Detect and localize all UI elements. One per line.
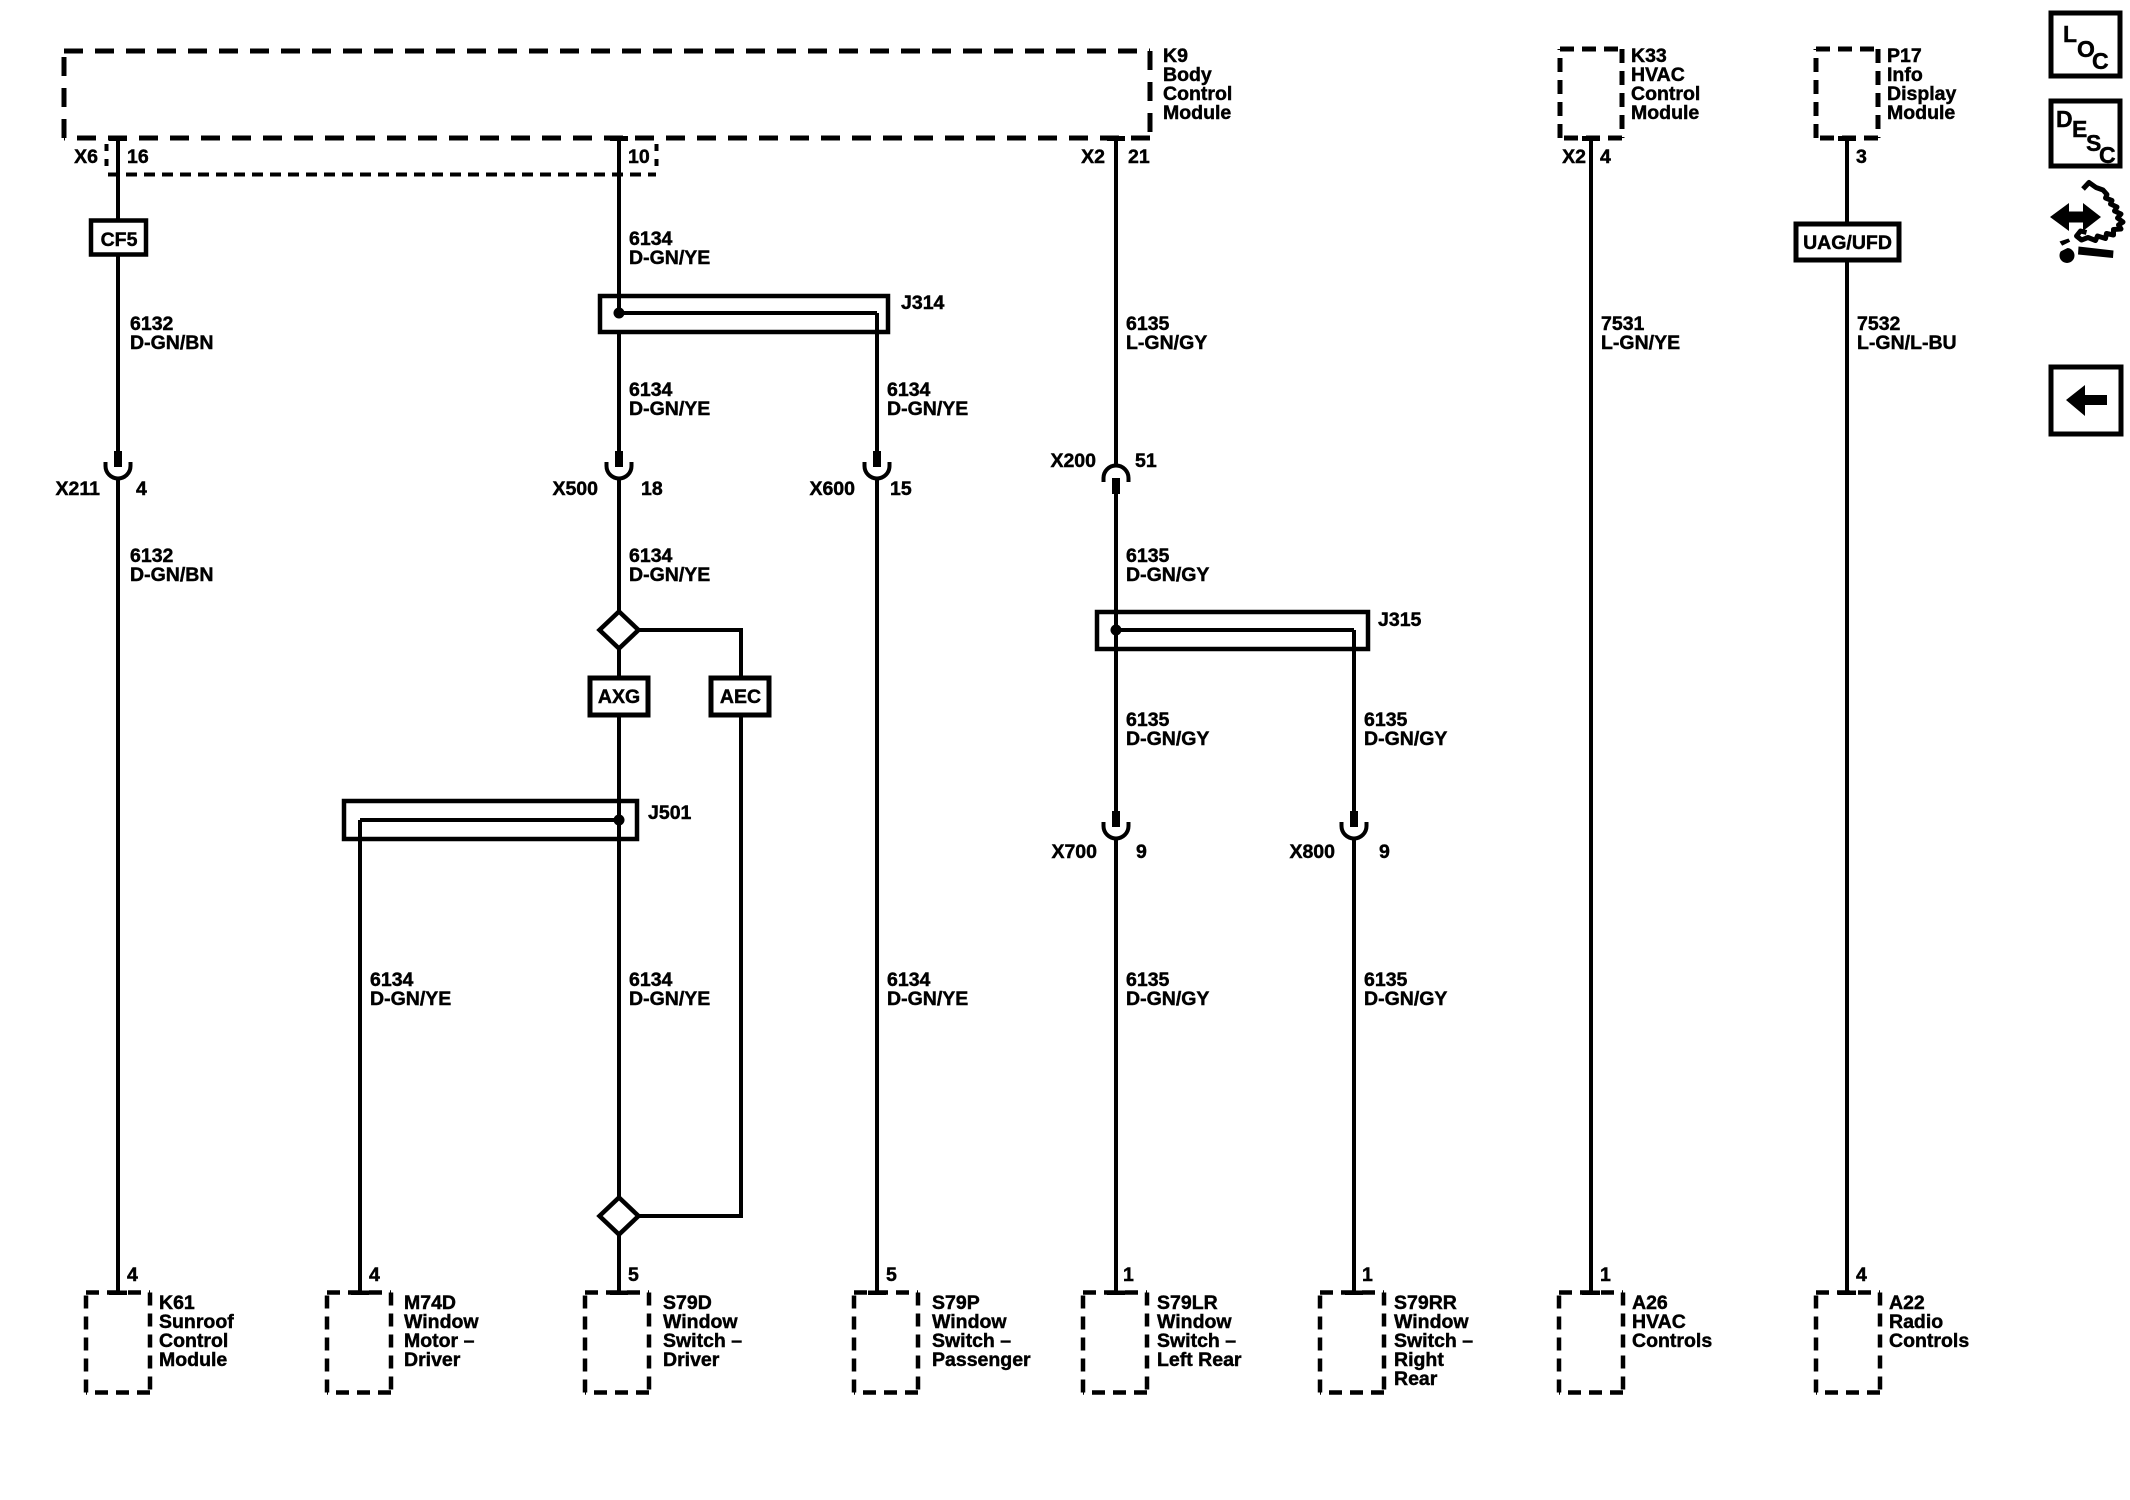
svg-text:X6: X6 — [74, 146, 98, 168]
svg-text:18: 18 — [641, 478, 663, 500]
wire 6135 D-GN/GY from X200 to splice J315 — [1114, 494, 1118, 630]
svg-text:X200: X200 — [1050, 450, 1096, 472]
svg-text:4: 4 — [136, 478, 147, 500]
wire 6132 D-GN/BN from X211 to K61 — [116, 479, 120, 1293]
wire label 6134 D-GN/YE to S79P — [887, 969, 968, 1010]
junction dash at K9 pin 10 — [610, 136, 628, 141]
wire 6134 D-GN/YE from J314 to X500 — [617, 332, 621, 451]
svg-text:C: C — [2092, 48, 2109, 74]
connector X200 socket arc — [1104, 465, 1129, 482]
splice J501 junction dot — [614, 815, 625, 826]
wire branch from diamond S1 to AEC — [638, 628, 741, 632]
svg-text:Left Rear: Left Rear — [1157, 1349, 1242, 1371]
wire 6135 D-GN/GY from J315 to X800 — [1352, 649, 1356, 811]
svg-text:9: 9 — [1379, 841, 1390, 863]
P17 module name — [1887, 45, 1957, 124]
component S79P Window Switch Passenger dashed box — [854, 1293, 918, 1393]
svg-text:J314: J314 — [901, 292, 945, 314]
svg-text:D-GN/YE: D-GN/YE — [887, 988, 968, 1010]
wire 6132 D-GN/BN from K9 X6 pin 16 to CF5 — [116, 138, 120, 222]
wire label 6135 D-GN/GY below X200 — [1126, 545, 1209, 586]
icon DESC box — [2051, 101, 2120, 168]
connector X500 terminal tick — [615, 451, 623, 467]
svg-text:X500: X500 — [552, 478, 598, 500]
splice J314 bus bar — [619, 311, 877, 315]
S79LR component name — [1157, 1292, 1242, 1371]
svg-text:Module: Module — [159, 1349, 227, 1371]
wire label 6134 D-GN/YE mid-left — [629, 379, 710, 420]
module K33 HVAC Control Module dashed box — [1560, 49, 1622, 138]
svg-text:D-GN/YE: D-GN/YE — [629, 988, 710, 1010]
svg-text:4: 4 — [1856, 1264, 1867, 1286]
splice pack J501 box — [344, 801, 637, 839]
wire label 7531 L-GN/YE — [1601, 313, 1680, 354]
fuse AEC box — [711, 678, 769, 715]
svg-text:Rear: Rear — [1394, 1368, 1438, 1390]
svg-text:10: 10 — [628, 146, 650, 168]
connector X700 terminal tick — [1112, 811, 1120, 827]
wire 6132 D-GN/BN from CF5 to X211 — [116, 255, 120, 452]
svg-text:Controls: Controls — [1889, 1330, 1969, 1352]
wire 6134 D-GN/YE from K9 pin 10 to splice J314 — [617, 138, 621, 313]
K9 module name — [1163, 45, 1232, 124]
connector X211 terminal tick — [114, 451, 122, 467]
svg-text:4: 4 — [1600, 146, 1611, 168]
wire label 6134 D-GN/YE mid-right — [887, 379, 968, 420]
svg-text:5: 5 — [628, 1264, 639, 1286]
fuse CF5 box — [91, 221, 146, 255]
svg-text:1: 1 — [1362, 1264, 1373, 1286]
S79RR component name — [1394, 1292, 1473, 1390]
wire 7532 L-GN/L-BU from P17 pin 3 to UAG/UFD — [1845, 138, 1849, 224]
A26 component name — [1632, 1292, 1712, 1352]
splice pack J315 box — [1097, 612, 1368, 649]
wire 6135 L-GN/GY from K9 X2 pin 21 to X200 — [1114, 138, 1118, 467]
component S79RR Window Switch Right Rear dashed box — [1320, 1293, 1384, 1393]
svg-text:D-GN/GY: D-GN/GY — [1126, 564, 1209, 586]
connector strip X6 of K9 — [107, 144, 657, 175]
splice J314 junction dot — [614, 308, 625, 319]
svg-text:3: 3 — [1856, 146, 1867, 168]
svg-text:Driver: Driver — [663, 1349, 720, 1371]
svg-text:51: 51 — [1135, 450, 1157, 472]
connector X211 socket arc — [106, 462, 131, 479]
wire label 6135 L-GN/GY — [1126, 313, 1207, 354]
svg-text:15: 15 — [890, 478, 912, 500]
component A22 Radio Controls dashed box — [1816, 1293, 1880, 1393]
svg-text:D-GN/YE: D-GN/YE — [370, 988, 451, 1010]
fuse AXG box — [590, 678, 648, 715]
wire 6134 D-GN/YE from X600 to S79P — [875, 479, 879, 1293]
svg-text:D-GN/YE: D-GN/YE — [887, 398, 968, 420]
svg-text:X600: X600 — [809, 478, 855, 500]
K61 component name — [159, 1292, 234, 1371]
svg-text:J501: J501 — [648, 802, 692, 824]
junction dash at K9 pin 16 — [109, 136, 127, 141]
A22 component name — [1889, 1292, 1969, 1352]
K33 module name — [1631, 45, 1700, 124]
wire from AEC down to diamond S2 branch — [739, 715, 743, 1218]
splice J501 bus bar — [360, 818, 619, 822]
svg-text:4: 4 — [127, 1264, 138, 1286]
svg-text:4: 4 — [369, 1264, 380, 1286]
svg-text:Module: Module — [1163, 102, 1231, 124]
icon LOC box — [2051, 13, 2120, 76]
icon back arrow box — [2051, 367, 2121, 434]
wire 6135 D-GN/GY from X700 to S79LR — [1114, 839, 1118, 1293]
svg-text:Driver: Driver — [404, 1349, 461, 1371]
wire 6134 D-GN/YE from J314 to X600 — [875, 332, 879, 451]
S79D component name — [663, 1292, 742, 1371]
svg-text:D-GN/GY: D-GN/GY — [1364, 728, 1447, 750]
wire label 6134 D-GN/YE below X500 — [629, 545, 710, 586]
svg-text:L-GN/YE: L-GN/YE — [1601, 332, 1680, 354]
svg-text:AEC: AEC — [720, 686, 761, 708]
splice J315 bus bar — [1116, 628, 1354, 632]
wire 6134 D-GN/YE from J501 to M74D — [358, 839, 362, 1292]
component S79LR Window Switch Left Rear dashed box — [1083, 1293, 1147, 1393]
svg-text:Passenger: Passenger — [932, 1349, 1031, 1371]
wire label 6134 D-GN/YE to S79D — [629, 969, 710, 1010]
wire 6135 D-GN/GY from J315 to X700 — [1114, 630, 1118, 811]
svg-text:D-GN/YE: D-GN/YE — [629, 564, 710, 586]
svg-text:L-GN/L-BU: L-GN/L-BU — [1857, 332, 1957, 354]
svg-text:AXG: AXG — [598, 686, 640, 708]
M74D component name — [404, 1292, 479, 1371]
component A26 HVAC Controls dashed box — [1559, 1293, 1623, 1393]
junction dash at P17 pin 3 — [1838, 136, 1856, 141]
svg-text:Module: Module — [1631, 102, 1699, 124]
svg-text:D-GN/YE: D-GN/YE — [629, 398, 710, 420]
component M74D Window Motor Driver dashed box — [327, 1293, 391, 1393]
svg-text:X2: X2 — [1081, 146, 1105, 168]
svg-text:D-GN/BN: D-GN/BN — [130, 564, 213, 586]
svg-text:UAG/UFD: UAG/UFD — [1803, 232, 1892, 254]
svg-text:Controls: Controls — [1632, 1330, 1712, 1352]
svg-text:X2: X2 — [1562, 146, 1586, 168]
svg-text:D-GN/BN: D-GN/BN — [130, 332, 213, 354]
wire from diamond S1 to AXG — [617, 648, 621, 678]
wire label 6132 D-GN/BN upper — [130, 313, 213, 354]
component S79D Window Switch Driver dashed box — [585, 1293, 649, 1393]
svg-text:CF5: CF5 — [101, 229, 138, 251]
wire label 6135 D-GN/GY to S79RR — [1364, 969, 1447, 1010]
svg-text:1: 1 — [1600, 1264, 1611, 1286]
wire 7532 L-GN/L-BU from UAG/UFD to A22 — [1845, 260, 1849, 1292]
module P17 Info Display Module dashed box — [1816, 49, 1878, 138]
wire label 6134 D-GN/YE top — [629, 228, 710, 269]
connector X700 socket arc — [1104, 822, 1129, 839]
svg-text:X800: X800 — [1289, 841, 1335, 863]
wire 7531 L-GN/YE from K33 X2 pin 4 to A26 — [1589, 138, 1593, 1292]
svg-text:J315: J315 — [1378, 609, 1422, 631]
svg-text:L-GN/GY: L-GN/GY — [1126, 332, 1207, 354]
icon electrical repair (double arrow, harness outline, wrench) — [2050, 183, 2123, 264]
svg-text:9: 9 — [1136, 841, 1147, 863]
connector X600 terminal tick — [873, 451, 881, 467]
wire 6134 D-GN/YE from X500 to splice diamond — [617, 479, 621, 614]
junction dash at K33 pin 4 — [1582, 136, 1600, 141]
wire 6134 D-GN/YE from diamond S2 to S79D — [617, 1235, 621, 1293]
svg-text:C: C — [2099, 142, 2116, 168]
wire label 6134 D-GN/YE to M74D — [370, 969, 451, 1010]
svg-text:X700: X700 — [1051, 841, 1097, 863]
wire 6134 D-GN/YE from AXG through J501 to diamond S2 — [617, 715, 621, 1198]
connector X200 terminal tick — [1112, 478, 1120, 494]
svg-text:16: 16 — [127, 146, 149, 168]
svg-text:D-GN/GY: D-GN/GY — [1364, 988, 1447, 1010]
connector X500 socket arc — [607, 462, 632, 479]
svg-text:D-GN/GY: D-GN/GY — [1126, 988, 1209, 1010]
wire label 6132 D-GN/BN lower — [130, 545, 213, 586]
RPO label UAG/UFD box — [1796, 224, 1899, 260]
splice diamond S1 — [600, 612, 639, 649]
svg-text:X211: X211 — [56, 478, 101, 500]
connector X800 terminal tick — [1350, 811, 1358, 827]
svg-text:21: 21 — [1128, 146, 1150, 168]
svg-text:D-GN/YE: D-GN/YE — [629, 247, 710, 269]
wire label 6135 D-GN/GY to S79LR — [1126, 969, 1209, 1010]
wire label 7532 L-GN/L-BU — [1857, 313, 1957, 354]
svg-text:5: 5 — [886, 1264, 897, 1286]
svg-text:L: L — [2063, 21, 2077, 47]
component K61 Sunroof Control Module dashed box — [86, 1293, 150, 1393]
svg-text:Module: Module — [1887, 102, 1955, 124]
svg-text:D-GN/GY: D-GN/GY — [1126, 728, 1209, 750]
connector X800 socket arc — [1342, 822, 1367, 839]
wire 6135 D-GN/GY from X800 to S79RR — [1352, 839, 1356, 1293]
splice diamond S2 — [600, 1198, 639, 1235]
splice pack J314 box — [600, 296, 888, 332]
wire label 6135 D-GN/GY right below J315 — [1364, 709, 1447, 750]
module K9 Body Control Module dashed box — [64, 51, 1150, 138]
wire label 6135 D-GN/GY left below J315 — [1126, 709, 1209, 750]
splice J315 junction dot — [1111, 625, 1122, 636]
svg-text:D: D — [2056, 106, 2073, 132]
S79P component name — [932, 1292, 1031, 1371]
svg-text:1: 1 — [1123, 1264, 1134, 1286]
connector X600 socket arc — [865, 462, 890, 479]
junction dash at K9 pin 21 — [1107, 136, 1125, 141]
